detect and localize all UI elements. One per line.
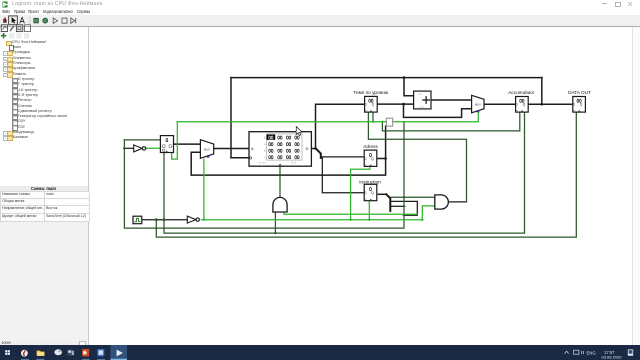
svg-text:c out: c out — [418, 104, 424, 108]
svg-text:D: D — [306, 147, 309, 151]
svg-text:Q: Q — [580, 102, 583, 106]
svg-text:Q: Q — [372, 102, 375, 106]
svg-text:4: 4 — [264, 142, 266, 146]
svg-text:Instruction: Instruction — [359, 179, 381, 184]
svg-text:MUX: MUX — [475, 102, 481, 106]
svg-text:MUX: MUX — [204, 147, 210, 151]
svg-text:03.06.2020: 03.06.2020 — [602, 355, 623, 360]
svg-text:0: 0 — [264, 135, 266, 139]
svg-text:Q: Q — [523, 102, 526, 106]
svg-text:Темп по уровню: Темп по уровню — [353, 90, 388, 95]
svg-text:c in: c in — [418, 92, 423, 96]
svg-text:Q: Q — [371, 191, 374, 195]
svg-text:ENG: ENG — [587, 350, 596, 355]
svg-text:Adress: Adress — [363, 143, 378, 148]
svg-text:Q: Q — [371, 157, 374, 161]
svg-text:ld clr: ld clr — [291, 160, 297, 164]
svg-text:Accumulator: Accumulator — [508, 90, 534, 95]
svg-text:DATA OUT: DATA OUT — [568, 90, 591, 95]
svg-text:8: 8 — [264, 149, 266, 153]
svg-text:str sel: str sel — [259, 160, 266, 164]
